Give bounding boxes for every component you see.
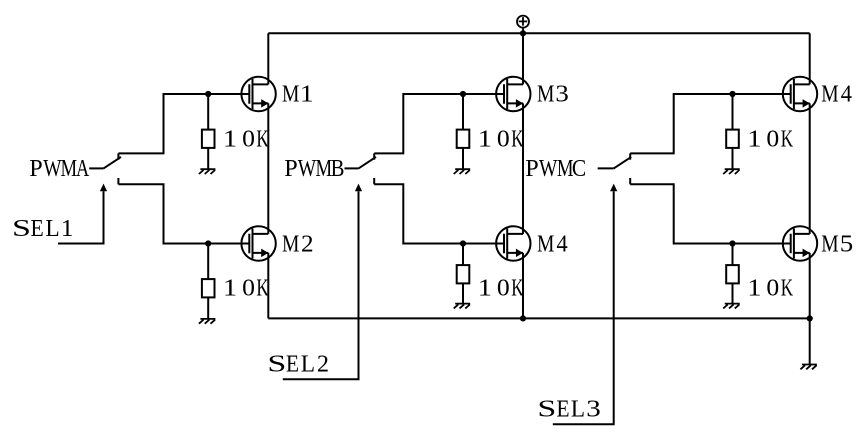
svg-text:1: 1 xyxy=(478,126,492,152)
svg-text:4: 4 xyxy=(841,81,853,108)
svg-text:W: W xyxy=(43,155,62,181)
svg-text:K: K xyxy=(781,274,793,302)
svg-text:M: M xyxy=(282,80,299,107)
svg-text:P: P xyxy=(29,156,42,182)
svg-text:5: 5 xyxy=(840,230,853,257)
svg-text:L: L xyxy=(45,216,59,242)
svg-text:M: M xyxy=(282,229,299,256)
svg-text:M: M xyxy=(821,229,838,256)
svg-text:1: 1 xyxy=(223,126,237,152)
svg-text:L: L xyxy=(571,396,585,422)
svg-text:E: E xyxy=(556,395,569,421)
svg-text:S: S xyxy=(12,216,31,242)
svg-text:K: K xyxy=(781,125,793,153)
svg-text:M: M xyxy=(61,155,78,182)
svg-text:2: 2 xyxy=(301,231,314,257)
svg-text:1: 1 xyxy=(300,80,314,107)
svg-text:3: 3 xyxy=(586,395,601,422)
svg-text:4: 4 xyxy=(557,231,569,258)
svg-text:0: 0 xyxy=(766,126,779,152)
svg-text:M: M xyxy=(316,155,333,182)
svg-text:W: W xyxy=(539,155,558,181)
svg-text:0: 0 xyxy=(766,275,779,301)
svg-text:S: S xyxy=(267,351,286,377)
svg-text:L: L xyxy=(301,351,315,377)
svg-text:0: 0 xyxy=(242,275,255,301)
svg-text:S: S xyxy=(537,396,556,422)
svg-text:2: 2 xyxy=(317,352,329,378)
svg-text:E: E xyxy=(286,351,299,377)
svg-text:3: 3 xyxy=(555,80,568,107)
svg-text:M: M xyxy=(537,229,554,256)
svg-text:K: K xyxy=(511,274,523,302)
svg-text:0: 0 xyxy=(497,126,510,152)
svg-text:K: K xyxy=(256,125,268,153)
svg-text:K: K xyxy=(256,274,268,302)
svg-text:P: P xyxy=(284,156,297,182)
svg-text:M: M xyxy=(821,80,838,107)
svg-text:W: W xyxy=(298,155,317,181)
svg-text:1: 1 xyxy=(747,275,761,301)
svg-text:1: 1 xyxy=(747,126,761,152)
svg-text:1: 1 xyxy=(478,275,492,301)
svg-text:M: M xyxy=(557,155,574,182)
svg-text:C: C xyxy=(572,155,586,181)
svg-text:1: 1 xyxy=(61,216,74,242)
svg-text:0: 0 xyxy=(497,275,510,301)
svg-text:B: B xyxy=(331,154,345,181)
svg-text:M: M xyxy=(537,80,554,107)
svg-text:A: A xyxy=(76,154,90,181)
svg-text:E: E xyxy=(31,215,44,241)
svg-text:P: P xyxy=(525,156,538,182)
svg-text:K: K xyxy=(511,125,523,153)
svg-text:0: 0 xyxy=(242,126,255,152)
svg-text:1: 1 xyxy=(223,275,237,301)
